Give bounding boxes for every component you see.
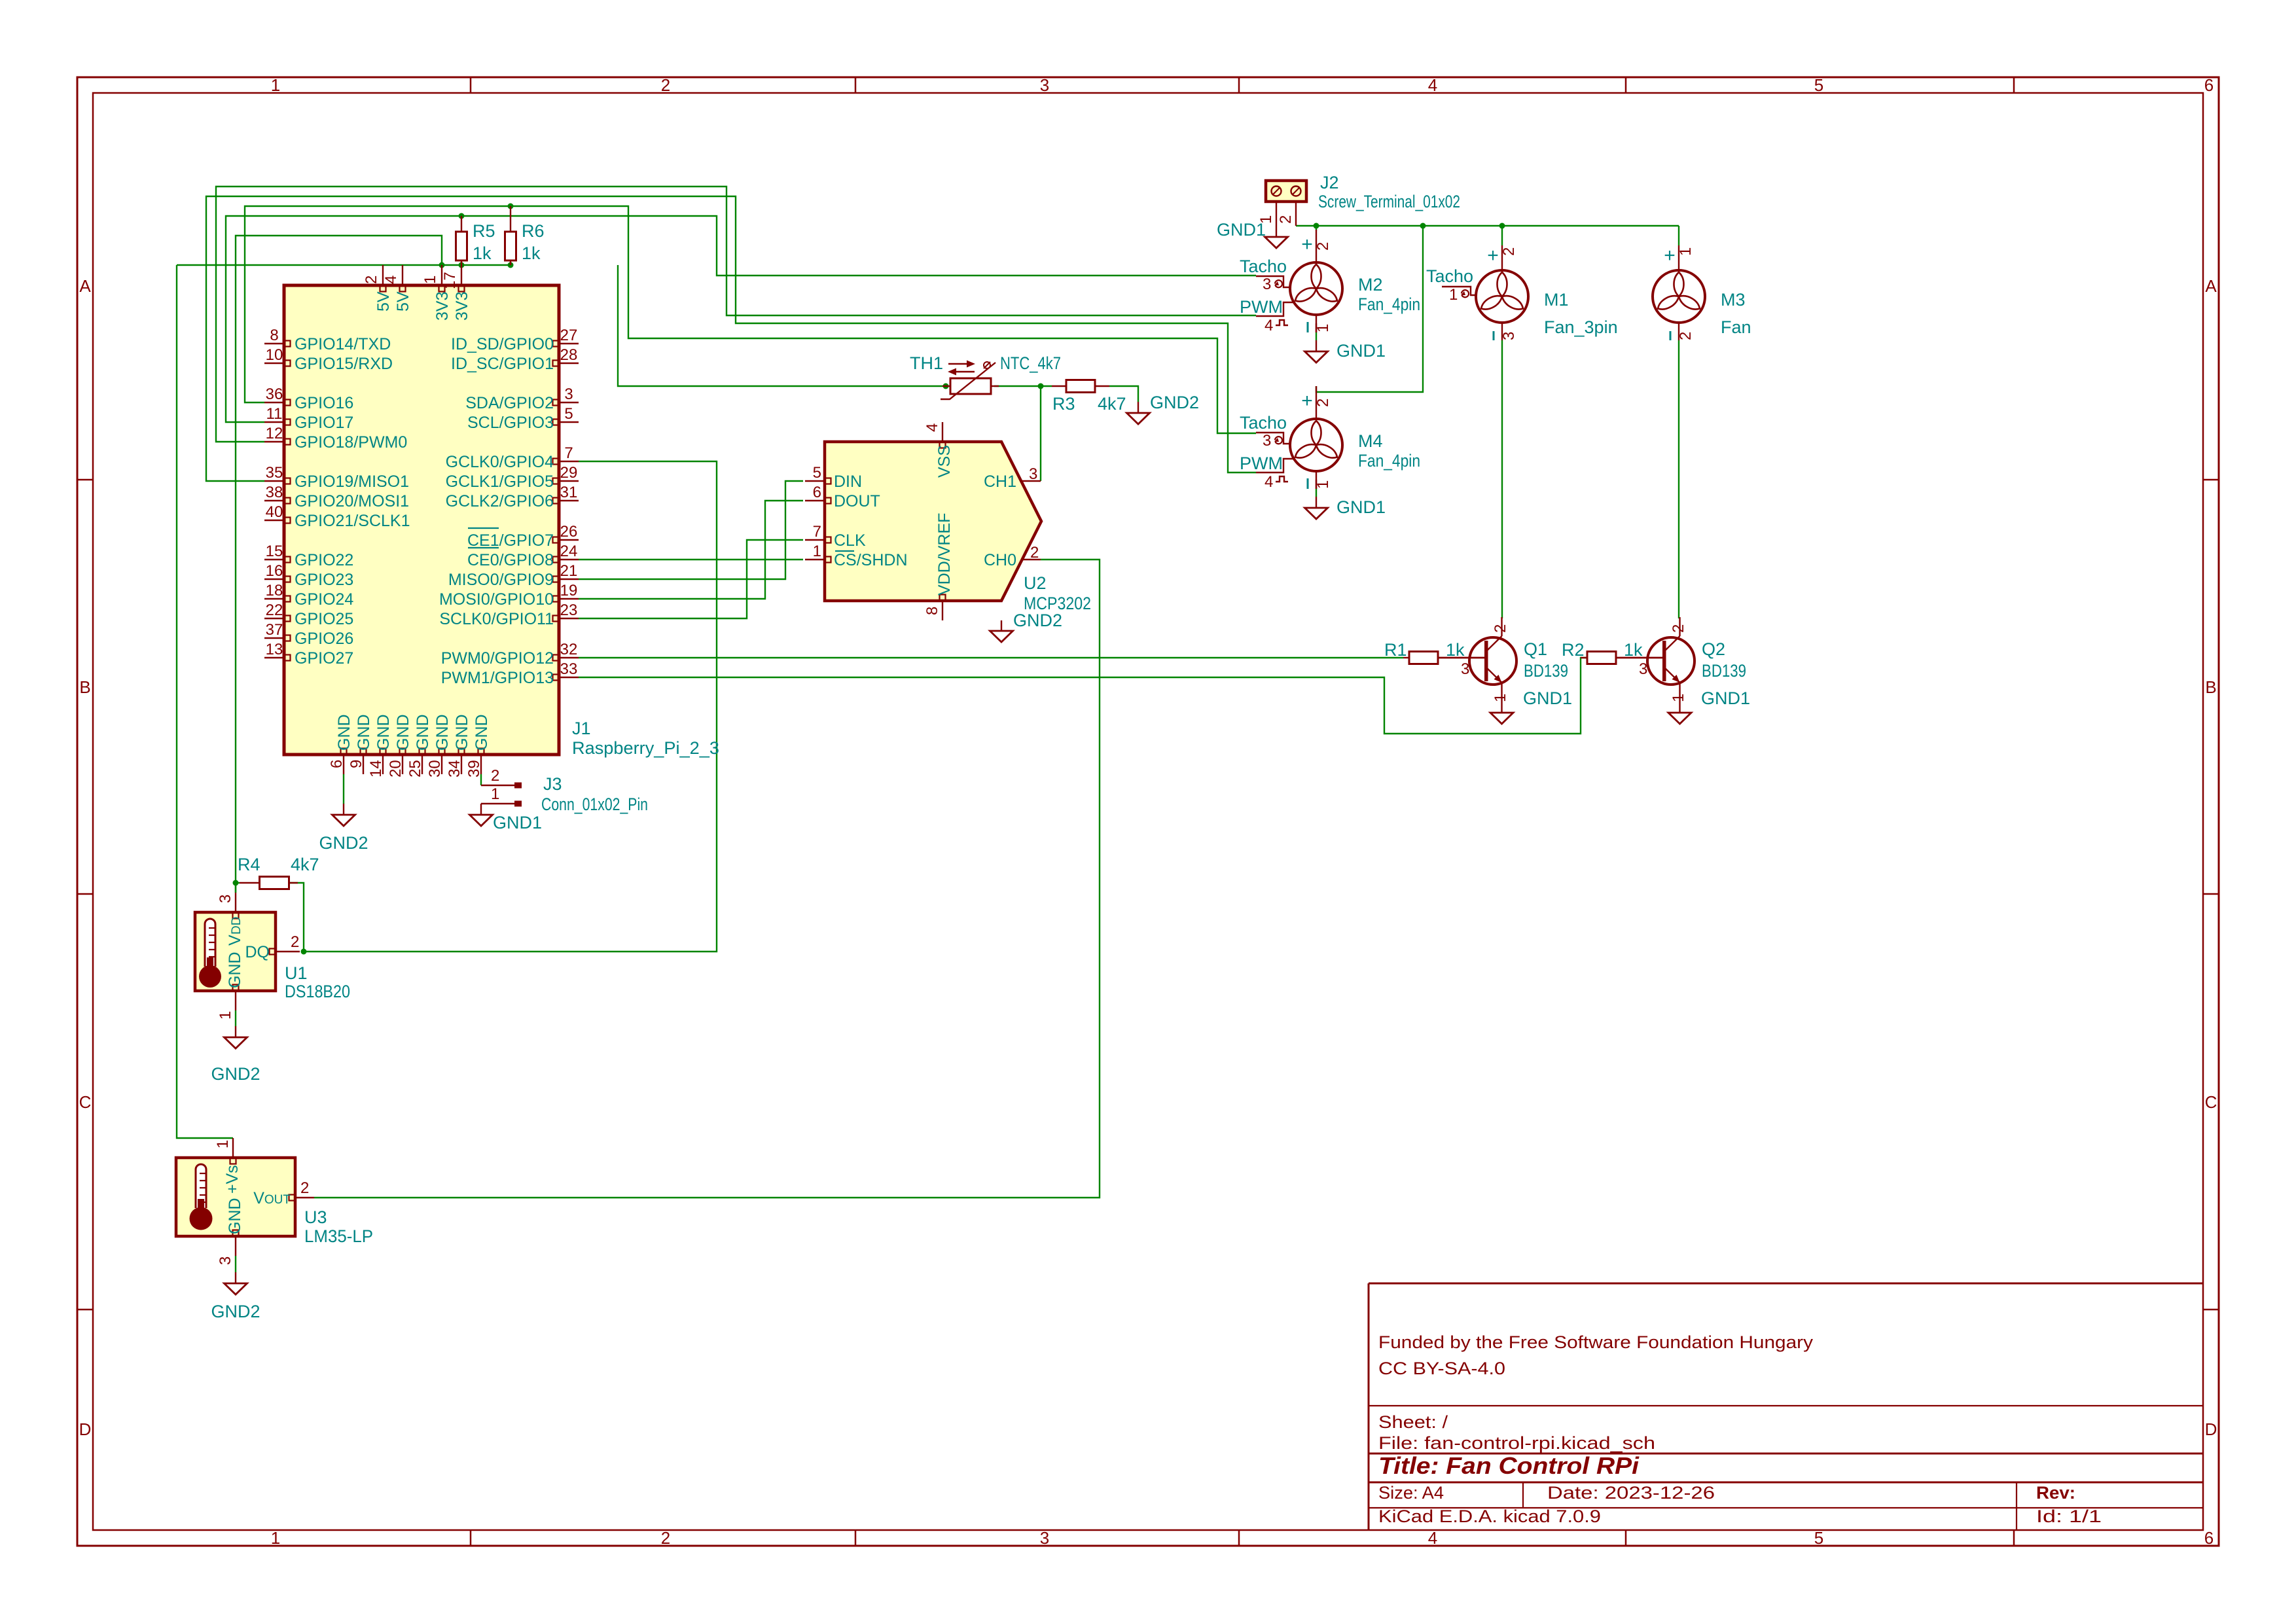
svg-text:2: 2	[661, 1528, 670, 1548]
svg-text:TH1: TH1	[910, 353, 943, 373]
svg-text:2: 2	[491, 767, 499, 785]
svg-text:GPIO25: GPIO25	[295, 610, 353, 628]
svg-text:J1: J1	[572, 719, 591, 738]
svg-text:1: 1	[214, 1140, 232, 1149]
svg-text:R6: R6	[522, 221, 545, 241]
svg-text:8: 8	[270, 327, 278, 344]
svg-text:4: 4	[924, 423, 941, 432]
svg-text:27: 27	[560, 327, 578, 344]
svg-text:21: 21	[560, 562, 578, 580]
svg-text:1: 1	[271, 1528, 280, 1548]
svg-text:GPIO15/RXD: GPIO15/RXD	[295, 355, 393, 373]
svg-text:C: C	[2205, 1092, 2217, 1112]
svg-text:28: 28	[560, 346, 578, 364]
svg-text:U1: U1	[285, 963, 308, 983]
svg-text:5V: 5V	[394, 291, 412, 312]
svg-text:Fan: Fan	[1721, 317, 1751, 337]
svg-text:GND: GND	[355, 714, 373, 751]
svg-text:9: 9	[348, 760, 365, 768]
svg-text:SCL/GPIO3: SCL/GPIO3	[467, 414, 554, 432]
svg-text:2: 2	[1314, 399, 1332, 407]
svg-text:DQ: DQ	[245, 943, 270, 961]
svg-text:GPIO21/SCLK1: GPIO21/SCLK1	[295, 512, 410, 530]
svg-text:J3: J3	[543, 774, 562, 794]
svg-text:1k: 1k	[1446, 640, 1465, 660]
svg-text:1k: 1k	[1624, 640, 1643, 660]
svg-text:GPIO26: GPIO26	[295, 630, 353, 648]
svg-text:GPIO17: GPIO17	[295, 414, 353, 432]
svg-text:4k7: 4k7	[291, 855, 319, 874]
svg-text:35: 35	[266, 464, 283, 482]
svg-text:1: 1	[1449, 286, 1458, 304]
svg-text:2: 2	[661, 75, 670, 95]
svg-text:2: 2	[1030, 544, 1039, 562]
svg-text:Q1: Q1	[1524, 639, 1547, 659]
svg-text:File: fan-control-rpi.kicad_sc: File: fan-control-rpi.kicad_sch	[1378, 1433, 1655, 1453]
svg-text:3: 3	[1029, 465, 1037, 483]
svg-text:1: 1	[491, 785, 499, 803]
svg-text:2: 2	[1677, 332, 1695, 340]
svg-text:NTC_4k7: NTC_4k7	[1000, 353, 1061, 373]
svg-text:R4: R4	[238, 855, 260, 874]
svg-text:SDA/GPIO2: SDA/GPIO2	[465, 394, 554, 412]
svg-text:34: 34	[446, 760, 463, 777]
svg-text:GND: GND	[394, 714, 412, 751]
svg-text:CLK: CLK	[834, 531, 866, 550]
svg-text:25: 25	[406, 760, 424, 777]
svg-text:2: 2	[1314, 242, 1332, 251]
svg-text:GND: GND	[414, 714, 432, 751]
svg-text:3: 3	[564, 385, 573, 403]
svg-text:12: 12	[266, 425, 283, 442]
svg-text:4: 4	[1428, 1528, 1437, 1548]
svg-text:1: 1	[422, 276, 439, 284]
svg-text:5V: 5V	[374, 291, 393, 312]
svg-text:4: 4	[1265, 317, 1273, 334]
svg-text:Id: 1/1: Id: 1/1	[2036, 1507, 2102, 1526]
svg-text:BD139: BD139	[1524, 661, 1568, 681]
svg-text:GND1: GND1	[1701, 688, 1750, 708]
svg-text:1: 1	[1677, 247, 1695, 256]
svg-text:2: 2	[291, 933, 299, 951]
svg-text:38: 38	[266, 484, 283, 501]
svg-text:1k: 1k	[522, 243, 541, 263]
svg-text:6: 6	[813, 484, 821, 501]
svg-text:PWM: PWM	[1240, 297, 1283, 317]
svg-text:VDD/VREF: VDD/VREF	[935, 513, 954, 596]
svg-text:GCLK2/GPIO6: GCLK2/GPIO6	[446, 492, 554, 510]
svg-text:4: 4	[1428, 75, 1437, 95]
svg-text:GND: GND	[226, 1198, 244, 1234]
svg-text:GND1: GND1	[1336, 497, 1386, 517]
svg-text:2: 2	[363, 276, 380, 284]
svg-text:BD139: BD139	[1702, 661, 1746, 681]
svg-text:Fan_4pin: Fan_4pin	[1358, 451, 1420, 471]
svg-text:LM35-LP: LM35-LP	[304, 1226, 373, 1246]
svg-text:3: 3	[1263, 432, 1271, 450]
svg-text:GPIO18/PWM0: GPIO18/PWM0	[295, 433, 407, 452]
svg-text:Raspberry_Pi_2_3: Raspberry_Pi_2_3	[572, 738, 719, 758]
svg-text:GND1: GND1	[1336, 341, 1386, 361]
svg-text:M2: M2	[1358, 275, 1383, 294]
svg-text:29: 29	[560, 464, 578, 482]
svg-text:GND: GND	[335, 714, 353, 751]
svg-text:18: 18	[266, 582, 283, 599]
svg-text:KiCad E.D.A. kicad 7.0.9: KiCad E.D.A. kicad 7.0.9	[1378, 1507, 1601, 1526]
svg-text:R3: R3	[1052, 394, 1075, 414]
svg-text:GPIO24: GPIO24	[295, 590, 353, 609]
svg-text:M1: M1	[1544, 290, 1569, 310]
svg-text:GND2: GND2	[1013, 611, 1062, 630]
svg-text:24: 24	[560, 543, 578, 560]
svg-text:3: 3	[217, 1257, 234, 1265]
svg-text:GCLK0/GPIO4: GCLK0/GPIO4	[446, 453, 554, 471]
svg-text:PWM1/GPIO13: PWM1/GPIO13	[441, 669, 554, 687]
svg-text:PWM0/GPIO12: PWM0/GPIO12	[441, 649, 554, 668]
svg-text:C: C	[79, 1092, 92, 1112]
svg-text:CE0/GPIO8: CE0/GPIO8	[467, 551, 554, 569]
svg-text:6: 6	[2204, 75, 2214, 95]
svg-text:19: 19	[560, 582, 578, 599]
svg-text:37: 37	[266, 621, 283, 639]
svg-text:2: 2	[1670, 624, 1687, 633]
svg-text:CH1: CH1	[984, 473, 1016, 491]
svg-text:CH0: CH0	[984, 551, 1016, 569]
svg-text:PWM: PWM	[1240, 454, 1283, 473]
svg-text:R2: R2	[1562, 640, 1585, 660]
svg-text:A: A	[2205, 276, 2217, 296]
svg-text:3: 3	[1461, 660, 1469, 678]
svg-text:15: 15	[266, 543, 283, 560]
svg-text:16: 16	[266, 562, 283, 580]
svg-text:+: +	[1664, 245, 1676, 266]
svg-text:ID_SD/GPIO0: ID_SD/GPIO0	[451, 335, 554, 353]
svg-text:A: A	[79, 276, 91, 296]
svg-text:VSS: VSS	[935, 445, 954, 478]
svg-text:M4: M4	[1358, 431, 1383, 451]
svg-text:Conn_01x02_Pin: Conn_01x02_Pin	[541, 794, 648, 814]
svg-text:+Vs: +Vs	[223, 1165, 242, 1194]
svg-text:2: 2	[1277, 215, 1295, 224]
svg-text:3: 3	[1500, 332, 1518, 340]
svg-text:13: 13	[266, 641, 283, 658]
svg-text:DIN: DIN	[834, 473, 862, 491]
svg-text:R1: R1	[1384, 640, 1407, 660]
svg-text:GPIO27: GPIO27	[295, 649, 353, 668]
svg-text:GND2: GND2	[211, 1302, 260, 1321]
svg-text:3: 3	[217, 895, 234, 903]
svg-text:1: 1	[1492, 694, 1509, 702]
svg-text:GND: GND	[226, 952, 244, 988]
svg-text:GND1: GND1	[493, 813, 542, 832]
svg-text:4: 4	[382, 276, 400, 284]
svg-text:J2: J2	[1320, 173, 1339, 192]
svg-text:Tacho: Tacho	[1240, 413, 1287, 433]
svg-text:+: +	[1301, 234, 1313, 255]
svg-text:36: 36	[266, 385, 283, 403]
svg-text:1: 1	[1670, 694, 1687, 702]
svg-text:1: 1	[1257, 215, 1275, 224]
svg-text:3V3: 3V3	[453, 292, 471, 321]
svg-text:5: 5	[1814, 75, 1823, 95]
svg-text:4k7: 4k7	[1098, 394, 1126, 414]
svg-text:MISO0/GPIO9: MISO0/GPIO9	[448, 571, 554, 589]
svg-text:GND1: GND1	[1523, 688, 1572, 708]
svg-text:4: 4	[1265, 473, 1273, 491]
svg-text:Rev:: Rev:	[2036, 1483, 2075, 1503]
svg-text:Tacho: Tacho	[1240, 257, 1287, 276]
svg-text:Date: 2023-12-26: Date: 2023-12-26	[1547, 1483, 1715, 1503]
svg-text:M3: M3	[1721, 290, 1746, 310]
svg-text:CS/SHDN: CS/SHDN	[834, 551, 908, 569]
svg-text:B: B	[79, 677, 90, 697]
svg-text:17: 17	[441, 272, 459, 289]
svg-text:SCLK0/GPIO11: SCLK0/GPIO11	[439, 610, 554, 628]
svg-text:U3: U3	[304, 1207, 327, 1227]
svg-text:20: 20	[387, 760, 404, 777]
svg-text:22: 22	[266, 601, 283, 619]
svg-text:U2: U2	[1024, 573, 1047, 593]
svg-text:GND2: GND2	[211, 1064, 260, 1084]
svg-text:3: 3	[1639, 660, 1647, 678]
svg-text:GPIO19/MISO1: GPIO19/MISO1	[295, 473, 409, 491]
svg-text:GPIO20/MOSI1: GPIO20/MOSI1	[295, 492, 409, 510]
svg-text:CC BY-SA-4.0: CC BY-SA-4.0	[1378, 1359, 1505, 1378]
svg-text:+: +	[1301, 390, 1313, 412]
svg-text:33: 33	[560, 660, 578, 678]
svg-text:GND2: GND2	[319, 833, 368, 853]
svg-text:GND: GND	[453, 714, 471, 751]
svg-text:5: 5	[1814, 1528, 1823, 1548]
svg-text:DS18B20: DS18B20	[285, 982, 350, 1001]
svg-text:40: 40	[266, 503, 283, 521]
svg-text:31: 31	[560, 484, 578, 501]
svg-text:1k: 1k	[473, 243, 492, 263]
svg-text:B: B	[2205, 677, 2216, 697]
svg-text:Tacho: Tacho	[1426, 266, 1473, 286]
svg-text:2: 2	[1500, 247, 1518, 256]
svg-text:1: 1	[813, 543, 821, 560]
svg-text:Fan_3pin: Fan_3pin	[1544, 317, 1618, 337]
svg-text:3: 3	[1040, 75, 1049, 95]
svg-text:7: 7	[564, 444, 573, 462]
svg-text:GND: GND	[374, 714, 393, 751]
svg-text:3: 3	[1040, 1528, 1049, 1548]
svg-text:26: 26	[560, 523, 578, 541]
svg-text:8: 8	[924, 607, 941, 615]
svg-text:32: 32	[560, 641, 578, 658]
svg-text:Fan_4pin: Fan_4pin	[1358, 294, 1420, 314]
svg-text:Q2: Q2	[1702, 639, 1725, 659]
svg-text:Title: Fan Control RPi: Title: Fan Control RPi	[1378, 1452, 1640, 1479]
svg-text:D: D	[2205, 1419, 2217, 1439]
svg-text:30: 30	[426, 760, 444, 777]
svg-text:+: +	[1487, 245, 1499, 266]
svg-text:5: 5	[813, 464, 821, 482]
svg-text:6: 6	[2204, 1528, 2214, 1548]
svg-text:GND: GND	[473, 714, 491, 751]
svg-text:DOUT: DOUT	[834, 492, 880, 510]
svg-text:5: 5	[564, 405, 573, 423]
svg-text:Size: A4: Size: A4	[1378, 1483, 1444, 1503]
svg-text:3: 3	[1263, 276, 1271, 293]
svg-text:10: 10	[266, 346, 283, 364]
svg-text:R5: R5	[473, 221, 495, 241]
svg-text:CE1/GPIO7: CE1/GPIO7	[467, 531, 554, 550]
svg-text:ID_SC/GPIO1: ID_SC/GPIO1	[451, 355, 554, 373]
svg-text:Screw_Terminal_01x02: Screw_Terminal_01x02	[1318, 192, 1460, 211]
svg-text:GPIO22: GPIO22	[295, 551, 353, 569]
svg-text:23: 23	[560, 601, 578, 619]
svg-text:DD: DD	[230, 917, 243, 935]
svg-text:GCLK1/GPIO5: GCLK1/GPIO5	[446, 473, 554, 491]
svg-text:3V3: 3V3	[433, 292, 452, 321]
svg-text:7: 7	[813, 523, 821, 541]
svg-text:D: D	[79, 1419, 92, 1439]
svg-text:GPIO16: GPIO16	[295, 394, 353, 412]
svg-text:1: 1	[217, 1011, 234, 1020]
svg-text:6: 6	[328, 760, 346, 768]
svg-text:MOSI0/GPIO10: MOSI0/GPIO10	[439, 590, 554, 609]
svg-text:GPIO23: GPIO23	[295, 571, 353, 589]
svg-text:V: V	[226, 935, 244, 946]
svg-text:Funded by the Free Software Fo: Funded by the Free Software Foundation H…	[1378, 1332, 1814, 1352]
svg-text:GND: GND	[433, 714, 452, 751]
svg-text:GPIO14/TXD: GPIO14/TXD	[295, 335, 391, 353]
svg-text:14: 14	[367, 760, 385, 777]
svg-text:Sheet: /: Sheet: /	[1378, 1412, 1448, 1432]
svg-text:1: 1	[271, 75, 280, 95]
svg-text:GND2: GND2	[1150, 393, 1199, 412]
svg-text:11: 11	[266, 405, 283, 423]
svg-text:2: 2	[1492, 624, 1509, 633]
svg-text:2: 2	[300, 1179, 309, 1197]
